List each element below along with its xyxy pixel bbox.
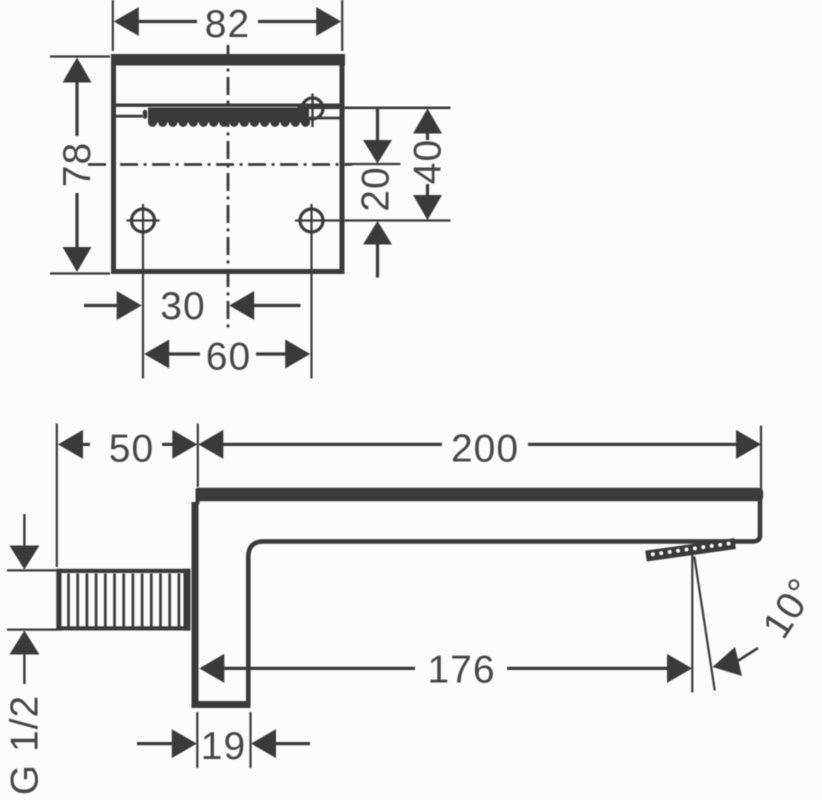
screw hole right vertical centerline / extension: [310, 204, 312, 379]
svg-text:60: 60: [206, 336, 251, 379]
svg-text:20: 20: [355, 166, 398, 211]
dimension 19 extension line right: [249, 712, 251, 768]
svg-text:30: 30: [160, 285, 205, 328]
upper circle crosshair vertical: [311, 94, 313, 128]
pipe left end cap: [56, 569, 61, 631]
wall bracket step (top face edge): [196, 489, 200, 505]
aerator left end cap: [143, 110, 147, 119]
extension line wall face (50/200 shared): [197, 424, 199, 488]
spout slot upper line: [116, 103, 340, 106]
dimension G 1/2 extension line bottom: [7, 628, 57, 630]
screw hole right: [300, 209, 323, 232]
dimension 40: [407, 109, 450, 221]
dimension 60: [144, 336, 310, 379]
screw hole right horizontal line + extension to 20/40 dims: [295, 219, 451, 221]
dimension 82 extension line right: [341, 0, 343, 51]
extension line pipe end (50 left): [56, 424, 58, 568]
label 10 degrees: [755, 571, 822, 646]
svg-text:78: 78: [56, 142, 99, 187]
vertical centerline (dash-dot): [227, 45, 230, 330]
horizontal centerline solid extension right: [346, 163, 401, 165]
faceplate top thick bar: [111, 54, 345, 66]
aerator spray face (tilted 10deg): [645, 538, 736, 561]
svg-text:176: 176: [427, 649, 495, 692]
dimension 200: [198, 428, 761, 471]
upper circle crosshair horizontal + extension line to 40 dim: [298, 106, 451, 109]
horizontal centerline (dash-dot): [88, 163, 352, 166]
slot ledge line left: [116, 115, 143, 118]
dimension 19 extension line left: [196, 712, 198, 768]
upper reference circle: [302, 98, 323, 119]
svg-text:200: 200: [451, 428, 519, 471]
dimension 30: [84, 285, 301, 328]
faceplate outline (top view body 82x78): [114, 57, 343, 272]
wall bracket outer edge and bottom: [195, 502, 251, 705]
svg-text:40: 40: [407, 139, 450, 184]
pipe thread hatching: [69, 574, 179, 628]
aerator strip (scalloped): [148, 108, 310, 127]
dimension G 1/2 extension line top: [7, 569, 57, 571]
slot ledge line right: [310, 117, 340, 120]
spout body outline (right edge, underside, inner bracket edge): [248, 499, 760, 705]
dimension 78 extension line top: [50, 55, 110, 57]
svg-text:G 1/2: G 1/2: [4, 695, 47, 795]
screw hole left: [127, 209, 160, 232]
spout top plate (thick bar): [197, 488, 764, 502]
svg-text:50: 50: [109, 428, 154, 471]
dimension 176: [199, 649, 692, 692]
dimension G 1/2 lower arrow and label: [4, 631, 47, 796]
dimension 82: [114, 3, 341, 46]
angle dimension arrow and leader: [713, 647, 759, 676]
dimension 20: [355, 108, 398, 278]
connection pipe outline: [59, 571, 189, 629]
svg-text:82: 82: [205, 3, 250, 46]
dimension 78: [56, 58, 99, 273]
svg-text:19: 19: [201, 725, 246, 768]
extension line spout tip (200 right): [760, 426, 762, 490]
angle reference line vertical: [691, 555, 693, 693]
pipe to bracket junction: [184, 569, 191, 631]
dimension G 1/2 upper arrow: [9, 514, 39, 570]
angle line tilted 10deg: [694, 557, 715, 691]
dimension 19: [137, 725, 310, 768]
dimension 82 extension line left: [112, 0, 114, 51]
dimension 78 extension line bottom: [50, 272, 110, 274]
dimension 50: [58, 428, 197, 471]
screw hole left vertical centerline / extension: [142, 204, 144, 379]
